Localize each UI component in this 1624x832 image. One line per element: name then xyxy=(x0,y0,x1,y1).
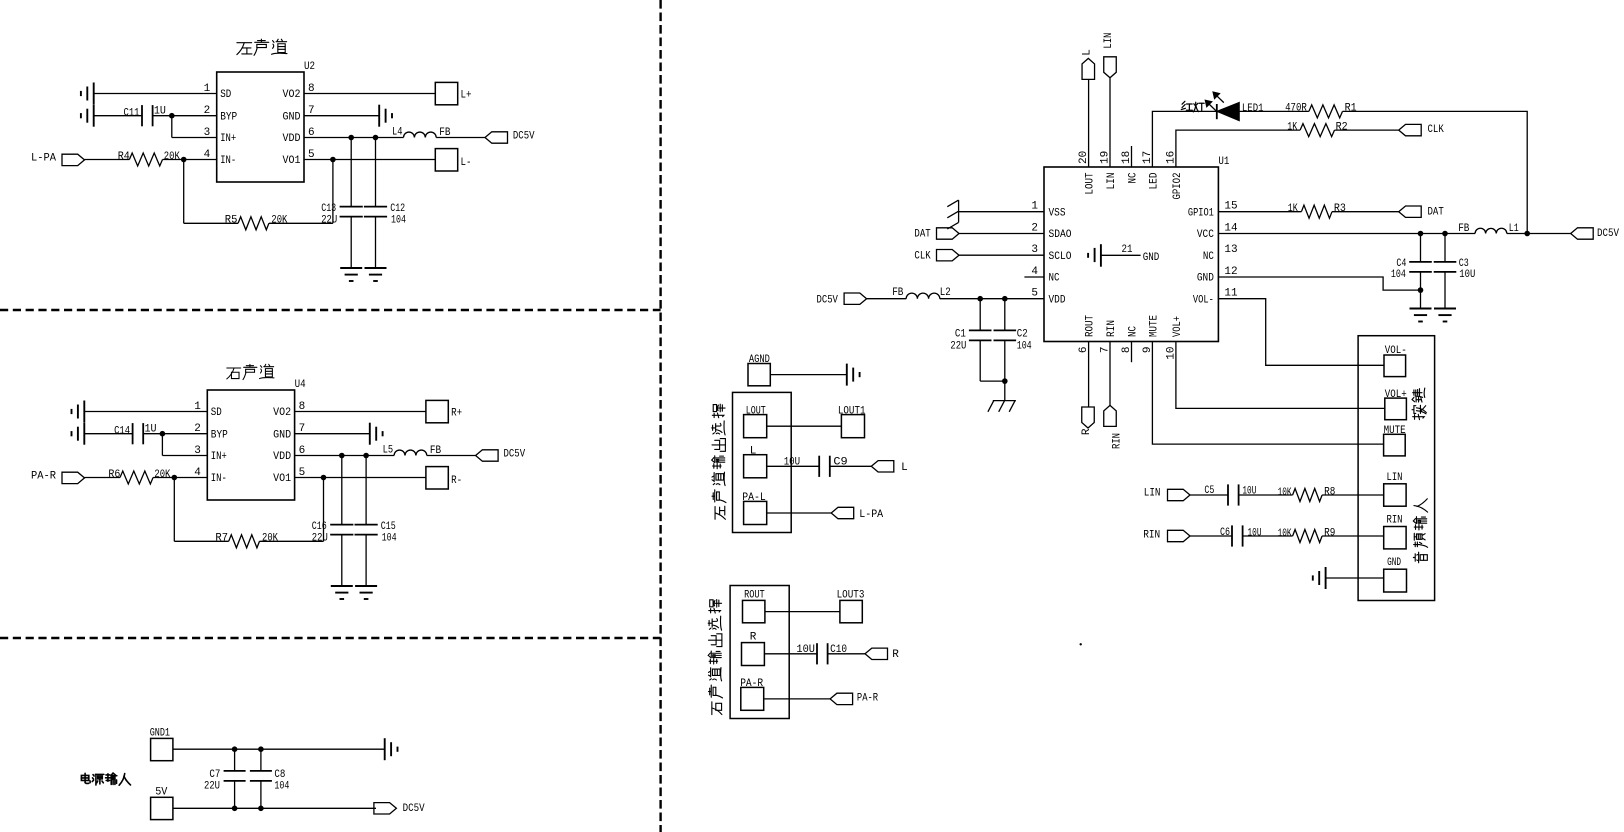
svg-text:L2: L2 xyxy=(940,287,951,299)
svg-text:DC5V: DC5V xyxy=(1597,228,1619,240)
title left channel (Chinese) xyxy=(237,43,252,55)
wire IN- pin 4 xyxy=(163,159,217,161)
svg-text:IN+: IN+ xyxy=(211,451,227,463)
stub NC pin 18 xyxy=(1131,146,1133,167)
pad R- square xyxy=(426,467,448,489)
svg-text:LIN: LIN xyxy=(1103,33,1115,49)
wire LED1 to R1 xyxy=(1239,110,1309,112)
svg-text:C1: C1 xyxy=(955,329,966,341)
wire RIN to C6 xyxy=(1190,535,1232,537)
svg-text:1K: 1K xyxy=(1288,203,1298,215)
svg-text:R3: R3 xyxy=(1334,203,1346,215)
wire GND1 rail xyxy=(173,748,385,750)
node VDD junction 2 xyxy=(363,453,369,459)
svg-text:R1: R1 xyxy=(1345,103,1357,115)
ground below C13 xyxy=(340,267,362,269)
svg-text:NC: NC xyxy=(1128,172,1140,183)
svg-text:GPIO2: GPIO2 xyxy=(1172,173,1184,200)
title right channel (Chinese) xyxy=(227,368,241,379)
wire down to ground xyxy=(1004,381,1006,401)
node DC5V junction xyxy=(1524,231,1530,237)
panel buttons and audio input box xyxy=(1358,336,1435,601)
svg-text:VOL+: VOL+ xyxy=(1385,389,1407,401)
section divider vertical dashed line xyxy=(659,0,661,832)
svg-text:L-: L- xyxy=(461,157,472,169)
svg-text:AGND: AGND xyxy=(749,354,770,366)
ground below C4 xyxy=(1410,308,1432,310)
wire BYP to IN+ xyxy=(171,116,173,138)
svg-text:R: R xyxy=(750,631,757,643)
svg-text:PA-R: PA-R xyxy=(31,470,56,482)
ground below C15 xyxy=(355,585,377,587)
node GND1-C8 xyxy=(258,746,264,752)
ground at GND pin 7 xyxy=(369,423,371,445)
wire SCLO pin 3 xyxy=(959,254,1044,256)
panel label right channel output select (Chinese, rotated) xyxy=(712,702,722,715)
svg-text:LOUT: LOUT xyxy=(1085,172,1097,194)
ground at VSS pin 1 (slashed) xyxy=(958,200,960,222)
LED1 emission arrows xyxy=(1210,105,1217,111)
svg-text:L: L xyxy=(1081,49,1093,56)
svg-text:470R: 470R xyxy=(1285,103,1307,115)
wire IN- pin 4 xyxy=(153,477,207,479)
svg-text:R6: R6 xyxy=(108,469,120,481)
svg-text:RIN: RIN xyxy=(1112,433,1124,449)
wire SD pin 1 xyxy=(94,93,217,95)
wire BYP pin 2 xyxy=(153,115,217,117)
panel right channel output select box xyxy=(730,586,789,719)
capacitor C3 10U xyxy=(1444,234,1446,262)
svg-text:IN+: IN+ xyxy=(220,133,236,145)
resistor R5 20K feedback xyxy=(183,160,185,224)
port DC5V output tag xyxy=(374,803,397,814)
svg-text:GPIO1: GPIO1 xyxy=(1188,207,1214,219)
wire ground to C11 xyxy=(94,115,142,117)
wire VO1 pin 5 to output pad xyxy=(295,477,426,479)
wire FB to DC5V xyxy=(427,455,476,457)
svg-text:22U: 22U xyxy=(950,341,966,353)
svg-text:R+: R+ xyxy=(451,408,462,420)
svg-text:LIN: LIN xyxy=(1106,173,1118,190)
svg-text:SCLO: SCLO xyxy=(1049,251,1072,263)
svg-text:LIN: LIN xyxy=(1144,487,1161,499)
svg-text:22U: 22U xyxy=(312,532,328,544)
node GND-C4 junction xyxy=(1418,287,1424,293)
chip U4 outline xyxy=(207,390,294,500)
svg-text:DAT: DAT xyxy=(914,229,931,241)
ground at GND pad xyxy=(1325,567,1327,589)
svg-text:VO2: VO2 xyxy=(283,89,301,101)
svg-text:IN-: IN- xyxy=(220,155,236,167)
svg-text:1: 1 xyxy=(1031,201,1038,213)
wire C10 to R tag xyxy=(828,653,865,655)
capacitor C14 1U xyxy=(132,423,134,444)
svg-text:10U: 10U xyxy=(1248,527,1262,539)
capacitor C12 104 xyxy=(375,138,377,207)
resistor R6 20K xyxy=(120,471,153,484)
node VDD junction 1 xyxy=(339,453,345,459)
stray dot mark xyxy=(1080,643,1082,645)
port PA-R tag xyxy=(830,693,853,704)
LED1 diode symbol xyxy=(1216,104,1218,119)
wire GND pin 12 to C4 node xyxy=(1218,277,1420,290)
capacitor C15 104 xyxy=(365,456,367,525)
node VDD-C1 xyxy=(977,296,983,302)
svg-text:C13: C13 xyxy=(321,203,336,215)
capacitor C1 22U xyxy=(979,299,981,331)
wire GND pin 7 xyxy=(295,433,370,435)
wire VDD pin 6 xyxy=(304,137,404,139)
wire DC5V to L2 xyxy=(867,298,907,300)
svg-text:C14: C14 xyxy=(114,425,130,437)
node BYP junction xyxy=(169,113,175,119)
svg-text:1K: 1K xyxy=(1287,121,1297,133)
wire LOUT pin 20 xyxy=(1088,79,1090,167)
capacitor C8 104 xyxy=(260,749,262,771)
port DAT tag right xyxy=(1399,206,1422,217)
svg-text:104: 104 xyxy=(274,781,289,793)
svg-text:R7: R7 xyxy=(215,533,228,545)
node VDD-C2 xyxy=(1002,296,1008,302)
wire VOL+ pin 10 xyxy=(1176,342,1385,409)
svg-text:20K: 20K xyxy=(271,215,287,227)
svg-text:DC5V: DC5V xyxy=(817,294,839,306)
chip U1 pin 21 ground symbol xyxy=(1100,244,1102,267)
port DC5V tag right xyxy=(1571,228,1594,239)
svg-text:U1: U1 xyxy=(1218,156,1229,168)
node VDD junction 1 xyxy=(348,135,354,141)
wire PA-R to R6 xyxy=(85,477,121,479)
title power input (Chinese) xyxy=(81,773,90,783)
wire GND pin 7 xyxy=(304,115,379,117)
svg-text:104: 104 xyxy=(1391,269,1406,281)
svg-text:13: 13 xyxy=(1224,244,1237,256)
svg-text:L-PA: L-PA xyxy=(31,152,56,164)
ground at SD pin xyxy=(83,401,85,423)
svg-text:L5: L5 xyxy=(383,444,394,456)
stub NC pin 4 xyxy=(1024,276,1044,278)
wire AGND to ground xyxy=(770,374,847,376)
svg-text:R8: R8 xyxy=(1324,486,1335,498)
ground at AGND xyxy=(846,364,848,386)
svg-text:C15: C15 xyxy=(381,521,396,533)
node 5V-C7 xyxy=(232,806,238,812)
wire LIN pin 19 xyxy=(1109,78,1111,167)
ground below C3 xyxy=(1434,308,1456,310)
wire L-PA to R4 xyxy=(85,159,130,161)
wire R2 to CLK xyxy=(1335,129,1399,131)
pad L- square xyxy=(435,149,457,171)
svg-text:SD: SD xyxy=(220,89,231,101)
wire C1-C2 ground link xyxy=(980,380,1005,382)
svg-text:VO2: VO2 xyxy=(273,407,291,419)
wire L to C9 xyxy=(767,465,820,467)
wire R to C10 xyxy=(764,653,817,655)
svg-text:2: 2 xyxy=(1031,223,1038,235)
wire PA-L to L-PA tag xyxy=(767,512,832,514)
ground below C2 (slashed) xyxy=(993,400,1016,402)
svg-text:VO1: VO1 xyxy=(283,155,301,167)
wire SD pin 1 xyxy=(84,411,207,413)
svg-text:L: L xyxy=(901,462,908,474)
svg-text:C7: C7 xyxy=(209,769,220,781)
wire VOL- pin 11 xyxy=(1218,299,1384,366)
port L tag xyxy=(871,461,894,472)
pad L+ square xyxy=(435,82,457,104)
svg-text:VOL+: VOL+ xyxy=(1172,316,1184,337)
node BYP junction xyxy=(160,431,166,437)
panel label audio input (Chinese, rotated) xyxy=(1413,552,1427,563)
node VCC-C4 xyxy=(1418,231,1424,237)
svg-text:L+: L+ xyxy=(461,90,472,102)
wire ground to GND pad xyxy=(1326,577,1384,579)
capacitor C4 104 xyxy=(1420,234,1422,262)
panel left channel output select box xyxy=(733,392,792,532)
wire LIN to C5 xyxy=(1190,494,1228,496)
svg-text:FB: FB xyxy=(892,287,904,299)
svg-text:RIN: RIN xyxy=(1143,530,1160,542)
svg-text:11: 11 xyxy=(1224,288,1238,300)
wire PA-R to PA-R tag xyxy=(764,698,830,700)
resistor R4 20K xyxy=(129,153,162,166)
svg-text:R-: R- xyxy=(451,475,462,487)
ground below C12 xyxy=(365,267,387,269)
wire C5 to R8 xyxy=(1239,494,1293,496)
port DC5V power tag xyxy=(476,450,499,461)
svg-text:U2: U2 xyxy=(304,61,315,73)
svg-text:10U: 10U xyxy=(784,457,800,469)
svg-text:L-PA: L-PA xyxy=(859,509,883,521)
svg-text:VOL-: VOL- xyxy=(1193,294,1214,306)
svg-text:ROUT: ROUT xyxy=(1085,315,1097,337)
node VDD junction 2 xyxy=(373,135,379,141)
svg-text:20K: 20K xyxy=(164,151,180,163)
svg-text:104: 104 xyxy=(1017,341,1032,353)
svg-text:NC: NC xyxy=(1203,251,1214,263)
svg-text:PA-R: PA-R xyxy=(857,693,879,705)
svg-text:22U: 22U xyxy=(204,781,220,793)
svg-text:IN-: IN- xyxy=(211,473,227,485)
svg-text:SDAO: SDAO xyxy=(1049,229,1072,241)
node GND1-C7 xyxy=(232,746,238,752)
svg-text:4: 4 xyxy=(1031,266,1038,278)
svg-text:C8: C8 xyxy=(274,769,285,781)
chip U1 outline xyxy=(1044,167,1218,342)
svg-text:L: L xyxy=(750,445,757,457)
svg-text:DAT: DAT xyxy=(1428,207,1445,219)
port RIN tag bottom xyxy=(1104,405,1117,426)
wire VO2 pin 8 to output pad xyxy=(295,411,426,413)
svg-text:R9: R9 xyxy=(1324,527,1335,539)
svg-text:RIN: RIN xyxy=(1106,320,1118,337)
wire ROUT to LOUT3 xyxy=(765,611,840,613)
ground at GND1 rail xyxy=(384,738,386,760)
svg-text:VDD: VDD xyxy=(273,451,291,463)
port R tag xyxy=(865,648,888,659)
svg-text:VCC: VCC xyxy=(1197,229,1214,241)
svg-text:12: 12 xyxy=(1224,266,1237,278)
svg-text:DC5V: DC5V xyxy=(504,448,526,460)
wire R8 to LIN pad xyxy=(1322,494,1384,496)
svg-text:10K: 10K xyxy=(1278,487,1292,499)
wire RIN pin 7 down xyxy=(1109,342,1111,406)
svg-text:MUTE: MUTE xyxy=(1384,425,1406,437)
wire R1 to DC5V rail xyxy=(1343,111,1528,233)
svg-text:15: 15 xyxy=(1224,201,1237,213)
svg-text:VSS: VSS xyxy=(1049,207,1066,219)
svg-text:LOUT: LOUT xyxy=(746,405,766,417)
port CLK tag right xyxy=(1399,124,1422,135)
svg-text:10U: 10U xyxy=(1459,269,1475,281)
port DC5V power tag xyxy=(485,132,508,143)
capacitor C7 22U xyxy=(234,749,236,771)
svg-text:C16: C16 xyxy=(312,521,327,533)
svg-text:VO1: VO1 xyxy=(273,473,291,485)
svg-text:CLK: CLK xyxy=(914,250,931,262)
svg-text:LED: LED xyxy=(1148,172,1160,189)
svg-text:BYP: BYP xyxy=(211,429,228,441)
svg-text:L4: L4 xyxy=(392,126,403,138)
capacitor C13 22U xyxy=(350,138,352,207)
port L-PA tag xyxy=(831,507,854,518)
wire VO2 pin 8 to output pad xyxy=(304,93,435,95)
svg-text:DC5V: DC5V xyxy=(513,130,535,142)
wire C9 to L tag xyxy=(830,465,872,467)
node ground link junction xyxy=(1002,378,1008,384)
inductor L4 ferrite bead xyxy=(404,132,437,137)
svg-text:R5: R5 xyxy=(225,215,238,227)
chip U2 outline xyxy=(217,72,304,182)
port R tag bottom xyxy=(1082,407,1095,428)
wire R9 to RIN pad xyxy=(1322,535,1384,537)
svg-text:PA-L: PA-L xyxy=(742,492,766,504)
svg-text:R2: R2 xyxy=(1336,121,1348,133)
svg-text:U4: U4 xyxy=(295,379,306,391)
wire SDAO pin 2 xyxy=(959,233,1044,235)
wire VO1 pin 5 to output pad xyxy=(304,159,435,161)
wire VSS pin 1 xyxy=(959,211,1044,213)
svg-text:SD: SD xyxy=(211,407,222,419)
inductor L5 ferrite bead xyxy=(394,450,427,455)
node IN- junction xyxy=(181,157,187,163)
wire VCC pin 14 rail xyxy=(1218,233,1475,235)
svg-text:C5: C5 xyxy=(1204,485,1214,497)
node VCC-C3 xyxy=(1442,231,1448,237)
svg-text:VDD: VDD xyxy=(1049,294,1066,306)
resistor R7 20K feedback xyxy=(173,478,175,542)
LED1 red indicator (Chinese label) xyxy=(1181,101,1192,110)
svg-text:R: R xyxy=(1081,428,1093,435)
wire GPIO2 pin 16 to R2 xyxy=(1176,130,1300,167)
svg-text:10K: 10K xyxy=(1278,528,1292,540)
wire ground to C14 xyxy=(84,433,132,435)
svg-text:CLK: CLK xyxy=(1428,124,1445,136)
wire BYP to IN+ xyxy=(161,434,163,456)
svg-text:C12: C12 xyxy=(390,203,405,215)
svg-text:NC: NC xyxy=(1049,273,1060,285)
svg-text:GND: GND xyxy=(1387,557,1401,569)
capacitor C16 22U xyxy=(341,456,343,525)
wire C6 to R9 xyxy=(1243,535,1293,537)
wire VDD pin 6 xyxy=(295,455,395,457)
wire L1 to DC5V xyxy=(1507,233,1571,235)
svg-text:C6: C6 xyxy=(1220,527,1230,539)
svg-text:10U: 10U xyxy=(796,644,815,656)
wire LOUT to LOUT1 xyxy=(767,425,842,427)
wire FB to DC5V xyxy=(436,137,485,139)
ground below C16 xyxy=(331,585,353,587)
wire 5V rail xyxy=(173,807,376,809)
svg-text:GND: GND xyxy=(1143,252,1160,264)
ground at BYP cap xyxy=(83,423,85,445)
svg-text:14: 14 xyxy=(1224,223,1238,235)
svg-text:GND: GND xyxy=(273,429,291,441)
wire VDD pin 5 xyxy=(940,298,1044,300)
svg-text:LIN: LIN xyxy=(1387,472,1403,484)
section divider horizontal dashed line 1 xyxy=(0,309,661,311)
wire BYP pin 2 xyxy=(143,433,207,435)
svg-text:20K: 20K xyxy=(154,469,170,481)
ground at SD pin xyxy=(93,83,95,105)
node VO1 junction xyxy=(321,475,327,481)
svg-text:VDD: VDD xyxy=(283,133,301,145)
svg-text:R: R xyxy=(892,649,899,661)
svg-text:NC: NC xyxy=(1128,326,1140,337)
svg-text:RIN: RIN xyxy=(1387,514,1403,526)
section divider horizontal dashed line 2 xyxy=(0,637,661,639)
wire R3 to DAT xyxy=(1332,211,1399,213)
svg-text:C11: C11 xyxy=(124,107,140,119)
svg-text:BYP: BYP xyxy=(220,111,237,123)
svg-text:LED1: LED1 xyxy=(1242,103,1264,115)
wire MUTE pin 9 xyxy=(1152,342,1383,445)
svg-text:5: 5 xyxy=(1031,288,1038,300)
panel label buttons (Chinese, rotated) xyxy=(1412,405,1426,419)
node VO1 junction xyxy=(330,157,336,163)
wire GPIO1 pin 15 to R3 xyxy=(1218,211,1301,213)
wire LED pin 17 xyxy=(1152,111,1216,167)
svg-text:104: 104 xyxy=(382,532,397,544)
pad R+ square xyxy=(426,400,448,422)
svg-text:22U: 22U xyxy=(321,214,337,226)
ground at GND pin 7 xyxy=(378,105,380,127)
svg-text:GND: GND xyxy=(283,111,301,123)
capacitor C2 104 xyxy=(1004,299,1006,331)
svg-text:R4: R4 xyxy=(118,151,130,163)
node IN- junction xyxy=(172,475,178,481)
svg-text:20K: 20K xyxy=(262,533,278,545)
svg-text:104: 104 xyxy=(391,214,406,226)
svg-text:FB: FB xyxy=(1458,223,1470,235)
svg-text:DC5V: DC5V xyxy=(403,803,425,815)
wire ROUT pin 6 down xyxy=(1088,342,1090,407)
panel label left channel output select (Chinese, rotated) xyxy=(715,506,725,519)
capacitor C11 1U xyxy=(141,105,143,126)
svg-text:3: 3 xyxy=(1031,244,1038,256)
svg-text:GND: GND xyxy=(1197,273,1214,285)
svg-text:MUTE: MUTE xyxy=(1148,315,1160,337)
svg-text:21: 21 xyxy=(1122,244,1133,256)
stub NC pin 8 xyxy=(1131,342,1133,363)
ground at BYP cap xyxy=(93,105,95,127)
svg-text:C2: C2 xyxy=(1017,329,1028,341)
node 5V-C8 xyxy=(258,806,264,812)
